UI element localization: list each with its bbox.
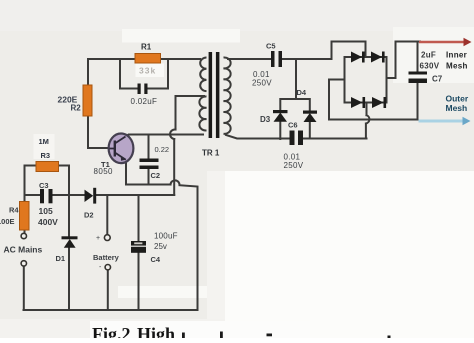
wire emitter xyxy=(126,160,171,185)
svg-text:400V: 400V xyxy=(38,217,58,227)
diode D2 xyxy=(85,188,97,204)
wire R1 parallel loop xyxy=(120,59,168,89)
capacitor C2 0.22 xyxy=(140,159,159,170)
capacitor C6 xyxy=(290,131,304,146)
terminal AC mains top xyxy=(21,233,26,238)
white band top xyxy=(122,29,240,43)
wire top rail left xyxy=(88,58,200,60)
svg-text:C2: C2 xyxy=(151,171,161,180)
bottom strip xyxy=(0,319,225,338)
terminal battery minus xyxy=(105,265,110,270)
wire C7 leads xyxy=(417,42,419,120)
capacitor C3 xyxy=(40,189,53,203)
caption highlight xyxy=(90,321,310,338)
svg-text:TR 1: TR 1 xyxy=(202,149,220,158)
svg-text:Mesh: Mesh xyxy=(446,103,468,113)
wire tap hop over collector wire xyxy=(170,129,175,139)
inner mesh red arrow xyxy=(419,38,472,47)
wire C2 top lead xyxy=(148,135,150,159)
wire C5 to step xyxy=(282,42,366,60)
bridge diode top-right xyxy=(371,52,385,63)
wire C6 rail up to bridge with hop xyxy=(366,103,370,139)
1M R3 label box xyxy=(34,134,55,159)
capacitor C5 xyxy=(271,51,282,67)
wire C4 leads xyxy=(138,195,140,310)
svg-text:R4: R4 xyxy=(9,206,19,215)
white area bottom right xyxy=(225,171,474,338)
outer mesh blue arrow xyxy=(419,117,471,126)
transformer primary winding xyxy=(200,57,206,91)
wire secondary top to C5 xyxy=(228,58,271,60)
svg-text:Fig.2 High: Fig.2 High xyxy=(92,324,175,338)
svg-text:Battery: Battery xyxy=(93,253,120,262)
wire battery minus lead xyxy=(107,270,109,310)
svg-text:R1: R1 xyxy=(141,43,152,52)
svg-text:Inner: Inner xyxy=(446,51,467,60)
wire ground rail xyxy=(24,309,198,311)
svg-text:R3: R3 xyxy=(41,151,51,160)
svg-text:C6: C6 xyxy=(288,121,298,130)
caption mark Inverter xyxy=(267,334,273,337)
transition strip xyxy=(207,171,225,320)
resistor R4 xyxy=(20,202,30,231)
svg-text:AC Mains: AC Mains xyxy=(4,245,43,255)
svg-text:0.22: 0.22 xyxy=(155,145,170,154)
33k value box xyxy=(136,64,165,78)
capacitor C7 xyxy=(409,72,428,84)
transformer secondary winding xyxy=(224,57,231,133)
wire junction rail (C3/D2 row) xyxy=(25,194,175,196)
svg-text:D1: D1 xyxy=(56,254,66,263)
caption mark circuit t xyxy=(388,336,391,339)
bridge box xyxy=(345,57,387,103)
diode D1 xyxy=(62,236,78,248)
wire bridge left entry xyxy=(329,80,345,120)
wire tap down to junction rail xyxy=(173,139,175,195)
wire outer mesh rail xyxy=(329,119,418,121)
wire R3 left lead xyxy=(25,166,37,196)
capacitor C1 0.02uF xyxy=(138,84,148,95)
svg-text:C5: C5 xyxy=(266,42,276,51)
svg-text:250V: 250V xyxy=(284,161,304,170)
wire D3 lead down xyxy=(279,122,281,139)
svg-text:D2: D2 xyxy=(84,211,94,220)
wire battery plus lead xyxy=(106,195,108,235)
wire D1 vertical xyxy=(68,195,70,310)
resistor R1 xyxy=(135,54,161,64)
svg-text:2uF: 2uF xyxy=(421,51,436,60)
wire C2 bottom lead xyxy=(148,169,150,185)
svg-text:1M: 1M xyxy=(39,137,49,146)
svg-text:C4: C4 xyxy=(151,255,161,264)
diode D4 xyxy=(303,111,317,123)
transistor T1 xyxy=(109,134,134,164)
svg-text:R2: R2 xyxy=(71,104,82,113)
svg-text:105: 105 xyxy=(39,206,53,216)
white band mid left xyxy=(118,286,207,298)
resistor R2 xyxy=(83,85,92,116)
transformer center tap wire xyxy=(176,96,205,130)
top strip xyxy=(0,0,474,31)
svg-text:100uF: 100uF xyxy=(154,232,178,241)
svg-text:630V: 630V xyxy=(420,62,440,71)
wire R2 top lead xyxy=(87,59,89,86)
svg-text:0.02uF: 0.02uF xyxy=(131,97,158,106)
caption ascender mark xyxy=(220,332,223,339)
caption ascender mark voltage xyxy=(182,333,185,339)
wire R2 bottom lead to base xyxy=(88,114,110,148)
svg-text:D4: D4 xyxy=(297,88,307,97)
svg-text:8050: 8050 xyxy=(94,167,114,176)
terminal AC mains bottom xyxy=(21,261,26,266)
svg-text:Outer: Outer xyxy=(446,94,469,104)
wire secondary bottom to C6 xyxy=(226,135,367,139)
wire AC mains lower lead xyxy=(23,266,25,310)
svg-text:D3: D3 xyxy=(260,115,271,124)
svg-text:+: + xyxy=(96,235,100,242)
resistor R3 xyxy=(36,162,59,172)
diode D3 xyxy=(273,110,288,122)
wire collector to primary bottom xyxy=(125,135,204,138)
wire bridge right exit xyxy=(387,42,421,79)
wire R4 leads xyxy=(24,195,26,233)
svg-text:250V: 250V xyxy=(252,79,272,88)
svg-text:33k: 33k xyxy=(139,66,156,76)
transformer TR1 core xyxy=(209,52,213,138)
bridge diode top-left xyxy=(351,52,365,63)
bridge diode bottom-right xyxy=(372,97,386,108)
wire D4 lead down xyxy=(309,122,311,139)
bridge diode bottom-left xyxy=(351,97,365,108)
svg-text:Mesh: Mesh xyxy=(446,62,468,71)
svg-text:C7: C7 xyxy=(432,75,443,84)
wire emitter hop over tap line xyxy=(171,180,198,310)
terminal battery plus xyxy=(104,235,110,241)
wire D3 D4 top bar xyxy=(280,99,310,111)
wire node A down to doubler xyxy=(295,59,297,99)
capacitor C4 electrolytic xyxy=(131,241,146,253)
svg-text:25v: 25v xyxy=(154,242,167,251)
svg-text:100E: 100E xyxy=(0,217,15,226)
white area top right xyxy=(393,27,474,83)
wire top diode mid tap xyxy=(366,56,368,58)
wire R3 right lead down xyxy=(59,166,70,196)
svg-text:C3: C3 xyxy=(39,181,49,190)
